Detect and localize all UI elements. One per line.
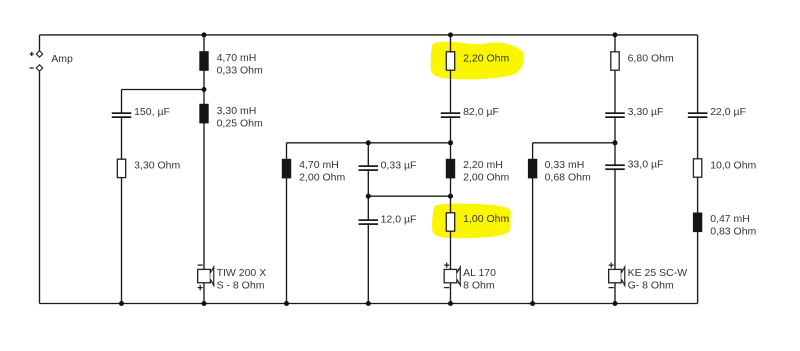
amp minus terminal: [30, 65, 43, 71]
svg-text:KE 25 SC-W: KE 25 SC-W: [628, 267, 688, 279]
svg-text:10,0 Ohm: 10,0 Ohm: [710, 160, 756, 172]
amp plus terminal: [30, 51, 43, 57]
svg-text:4,70 mH: 4,70 mH: [217, 52, 257, 64]
svg-text:3,30 Ohm: 3,30 Ohm: [134, 160, 180, 172]
capacitor C7 22,0 uF: [688, 112, 708, 118]
speaker KE 25 SC-W tweeter: [609, 263, 625, 288]
wire bottom rail: [40, 303, 698, 305]
svg-text:33,0 µF: 33,0 µF: [628, 159, 664, 171]
wire branch E vertical: [367, 143, 369, 304]
wire branch D vertical: [286, 143, 288, 304]
wire branch I vertical: [697, 35, 699, 304]
svg-text:0,33 µF: 0,33 µF: [381, 160, 417, 172]
node bottom rail at G: [530, 301, 535, 306]
svg-text:0,33 mH: 0,33 mH: [545, 159, 585, 171]
node lower wire at F: [448, 194, 453, 199]
svg-text:1,00 Ohm: 1,00 Ohm: [463, 213, 509, 225]
highlight over resistor R 1,00 Ohm: [432, 203, 511, 238]
node bottom rail at F: [448, 301, 453, 306]
svg-text:22,0 µF: 22,0 µF: [710, 106, 746, 118]
svg-text:4,70 mH: 4,70 mH: [299, 159, 339, 171]
inductor L3 4,70 mH 2,00 Ohm: [282, 159, 291, 179]
capacitor C5 3,30 uF: [605, 112, 625, 118]
svg-text:0,83 Ohm: 0,83 Ohm: [710, 226, 756, 238]
speaker AL 170 midrange: [444, 263, 460, 288]
node mid wire at F: [448, 140, 453, 145]
svg-text:0,33 Ohm: 0,33 Ohm: [217, 64, 263, 76]
speaker TIW 200 X woofer: [198, 265, 214, 290]
wire midrange top horizontal: [287, 142, 451, 144]
wire branch F vertical: [450, 35, 452, 304]
svg-text:150, µF: 150, µF: [134, 106, 170, 118]
svg-text:TIW 200 X: TIW 200 X: [217, 267, 267, 279]
inductor L5 0,33 mH 0,68 Ohm: [528, 159, 537, 179]
capacitor C2 0,33 uF: [359, 165, 379, 171]
node lower wire at E: [366, 194, 371, 199]
wire branch B horizontal tap: [122, 89, 205, 91]
svg-text:G- 8 Ohm: G- 8 Ohm: [628, 280, 674, 292]
node top rail at F: [448, 32, 453, 37]
svg-text:6,80 Ohm: 6,80 Ohm: [628, 52, 674, 64]
wire branch G vertical: [532, 143, 534, 304]
svg-text:0,25 Ohm: 0,25 Ohm: [217, 117, 263, 129]
capacitor C4 82,0 uF: [441, 112, 461, 118]
capacitor C3 12,0 uF: [359, 219, 379, 225]
node bottom rail at E: [366, 301, 371, 306]
node between L1 and L2: [202, 87, 207, 92]
svg-text:12,0 µF: 12,0 µF: [381, 213, 417, 225]
svg-text:8 Ohm: 8 Ohm: [463, 280, 495, 292]
svg-text:2,20 Ohm: 2,20 Ohm: [463, 52, 509, 64]
svg-text:3,30 µF: 3,30 µF: [628, 106, 664, 118]
wire amp plus lead: [39, 35, 41, 51]
highlight over resistor R 2,20 Ohm: [431, 42, 524, 80]
node bottom rail at C: [202, 301, 207, 306]
svg-text:S - 8 Ohm: S - 8 Ohm: [217, 280, 265, 292]
node top rail at H: [613, 32, 618, 37]
node top rail at C: [202, 32, 207, 37]
node tweeter wire at H: [613, 140, 618, 145]
node bottom rail at B: [119, 301, 124, 306]
resistor R5 10,0 Ohm: [693, 159, 701, 177]
resistor R4 6,80 Ohm: [611, 52, 619, 70]
svg-text:0,47 mH: 0,47 mH: [710, 213, 750, 225]
inductor L2 3,30 mH 0,25 Ohm: [199, 104, 208, 124]
wire branch C vertical: [203, 35, 205, 304]
resistor R1 3,30 Ohm: [117, 159, 125, 177]
node mid wire at E: [366, 140, 371, 145]
svg-text:82,0 µF: 82,0 µF: [463, 106, 499, 118]
capacitor C1 150 uF: [112, 112, 132, 118]
inductor L4 2,20 mH 2,00 Ohm: [446, 159, 455, 179]
wire tweeter horizontal: [533, 142, 615, 144]
node bottom rail at D: [284, 301, 289, 306]
inductor L1 4,70 mH 0,33 Ohm: [199, 51, 208, 71]
svg-text:3,30 mH: 3,30 mH: [217, 105, 257, 117]
resistor R3 1,00 Ohm: [446, 213, 454, 231]
capacitor C6 33,0 uF: [605, 164, 625, 170]
wire branch H vertical: [614, 35, 616, 304]
svg-text:2,00 Ohm: 2,00 Ohm: [299, 172, 345, 184]
svg-text:Amp: Amp: [51, 53, 73, 65]
svg-text:2,20 mH: 2,20 mH: [463, 159, 503, 171]
svg-text:2,00 Ohm: 2,00 Ohm: [463, 172, 509, 184]
node bottom rail at H: [613, 301, 618, 306]
resistor R2 2,20 Ohm: [446, 52, 454, 70]
svg-text:0,68 Ohm: 0,68 Ohm: [545, 172, 591, 184]
wire amp minus lead and left side down: [39, 71, 41, 304]
svg-text:AL 170: AL 170: [463, 267, 496, 279]
wire top rail: [40, 34, 698, 36]
inductor L6 0,47 mH 0,83 Ohm: [693, 213, 702, 233]
wire midrange lower horizontal: [368, 195, 450, 197]
wire branch B vertical: [121, 90, 123, 304]
